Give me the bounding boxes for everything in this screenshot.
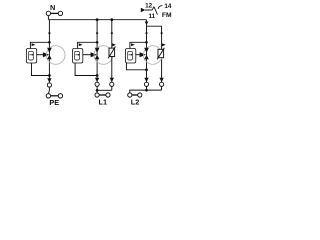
fuse element inside box U3 xyxy=(128,51,133,60)
terminal L1 right circle xyxy=(106,93,110,97)
wire module2 sockets to tie xyxy=(96,86,98,90)
node module1 top link dot xyxy=(48,41,51,44)
wire L1 link xyxy=(99,94,106,96)
disconnector diamond module2 varistor xyxy=(111,32,114,35)
wire module3 tie xyxy=(130,90,162,93)
plug socket circle module2 varistor xyxy=(110,82,114,86)
wire fuse line U2 xyxy=(75,54,78,56)
gas discharge tube circle module2 xyxy=(94,46,113,65)
plug socket circle module2 xyxy=(95,82,99,86)
arrow inside box U3 xyxy=(131,54,133,56)
node module2 top link dot xyxy=(96,41,99,44)
arrow module2 down xyxy=(95,78,99,82)
node module3 top link dot xyxy=(145,41,148,44)
fuse element inside box U2 xyxy=(75,51,80,60)
plug socket circle module3 xyxy=(144,82,148,86)
svg-text:L2: L2 xyxy=(131,97,140,106)
wire module3 box bottom exit xyxy=(126,63,146,70)
arrow module3 down xyxy=(144,78,148,82)
wire trigger module1 xyxy=(37,54,44,56)
spark gap lower electrode module3 xyxy=(144,55,149,59)
terminal PE right circle xyxy=(58,94,62,98)
terminal N left circle xyxy=(46,11,50,15)
wire module2 top link xyxy=(78,42,98,48)
spark gap upper electrode module2 xyxy=(95,48,100,53)
svg-text:14: 14 xyxy=(164,3,172,10)
monitoring box U2 xyxy=(73,49,83,64)
wire module3 top link xyxy=(130,42,147,48)
wire module1 main vertical xyxy=(48,20,50,82)
node module3 bottom dot xyxy=(145,68,148,71)
arrow trigger module1 xyxy=(43,52,49,57)
disconnector diamond module3 xyxy=(145,32,148,35)
terminal L2 right circle xyxy=(138,93,142,97)
arrow inside box U1 xyxy=(32,54,34,56)
wire module2 tie drop xyxy=(96,90,98,93)
arrow module3 varistor down xyxy=(159,78,163,82)
wire FM 12 xyxy=(145,9,152,11)
wire module2 main vertical xyxy=(96,20,98,82)
wire N drop xyxy=(47,16,49,20)
node bus junction dot middle xyxy=(96,18,99,21)
arrow flag varistor branch module3 xyxy=(162,43,166,46)
contact FM fixed 12 tick xyxy=(152,7,154,10)
node module1 bottom dot xyxy=(48,74,51,77)
svg-text:PE: PE xyxy=(49,98,59,107)
wire PE link xyxy=(51,95,58,97)
wire fuse line U1 xyxy=(29,54,32,56)
contact FM lever xyxy=(154,7,157,15)
monitoring box U3 xyxy=(126,49,136,64)
svg-text:FM: FM xyxy=(162,12,172,19)
arrow trigger module3 xyxy=(140,52,146,57)
fuse element inside box U1 xyxy=(29,51,34,60)
wire module3 varistor to tie xyxy=(161,86,163,90)
terminal L1 left circle xyxy=(95,93,99,97)
spark gap lower electrode module1 xyxy=(47,55,52,59)
monitoring box U1 xyxy=(26,49,36,64)
terminal N right circle xyxy=(58,11,62,15)
arrow inside box U2 xyxy=(78,54,80,56)
arrow module2 top link flag xyxy=(79,43,83,46)
arrow module2 varistor down xyxy=(110,78,114,82)
plug socket circle module1 xyxy=(47,83,51,87)
spark gap upper electrode module3 xyxy=(144,48,149,53)
wire N link xyxy=(51,12,58,14)
wire L2 link xyxy=(132,94,138,96)
wire module1 top link xyxy=(30,42,49,48)
arrow module3 down top xyxy=(145,22,149,26)
spark gap lower electrode module2 xyxy=(95,55,100,59)
contact FM fixed 14 hook xyxy=(158,6,162,9)
varistor RV1 xyxy=(108,47,115,59)
disconnector diamond module1 xyxy=(48,32,51,35)
node module2 tie dot xyxy=(96,89,99,92)
svg-text:N: N xyxy=(50,3,55,12)
wire fuse line U3 xyxy=(128,54,131,56)
wire module1 box bottom exit xyxy=(32,63,50,76)
svg-text:12: 12 xyxy=(145,2,153,9)
disconnector diamond module3 varistor xyxy=(160,32,163,35)
arrow module1 down xyxy=(47,78,51,82)
svg-text:L1: L1 xyxy=(99,98,108,107)
spark gap upper electrode module1 xyxy=(47,48,52,53)
wire module2 varistor to tie xyxy=(111,86,113,90)
node module2 bottom dot xyxy=(96,74,99,77)
wire trigger module2 xyxy=(83,54,91,56)
wire module2 box bottom exit xyxy=(75,63,97,76)
varistor RV2 xyxy=(157,48,164,60)
wire N bus xyxy=(48,19,146,21)
arrow trigger module2 xyxy=(91,52,97,57)
arrow module1 top link flag xyxy=(32,43,36,46)
wire module3 T split xyxy=(147,26,162,82)
wire module2 tie xyxy=(97,89,112,91)
gas discharge tube circle module3 xyxy=(143,46,162,65)
wire varistor branch module2 xyxy=(111,20,113,82)
arrow module3 top link flag xyxy=(131,43,135,46)
wire module3 socket to tie xyxy=(146,86,148,90)
gas discharge tube circle module1 xyxy=(46,46,65,65)
disconnector diamond module2 xyxy=(96,32,99,35)
svg-text:11: 11 xyxy=(148,13,155,20)
wire trigger module3 xyxy=(136,54,141,56)
arrow flag varistor branch module2 xyxy=(112,43,116,46)
plug socket circle module3 varistor xyxy=(160,82,164,86)
wire module3 drop from bus xyxy=(146,20,148,82)
wire module1 to PE xyxy=(48,87,51,93)
terminal L2 left circle xyxy=(128,93,132,97)
node bus junction dot varistor branch xyxy=(110,18,113,21)
arrow FM wire 12 xyxy=(141,8,146,12)
node module3 tie dot xyxy=(145,89,148,92)
terminal PE left circle xyxy=(46,94,50,98)
